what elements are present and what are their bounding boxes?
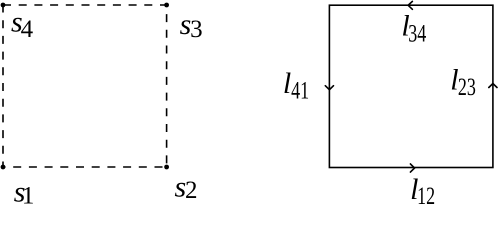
svg-text:4: 4	[21, 16, 34, 43]
svg-text:2: 2	[185, 177, 198, 204]
svg-text:3: 3	[190, 16, 203, 43]
svg-text:34: 34	[408, 20, 426, 47]
svg-text:12: 12	[417, 183, 435, 205]
svg-text:1: 1	[22, 182, 35, 205]
svg-text:41: 41	[291, 77, 309, 104]
svg-text:23: 23	[458, 74, 476, 101]
svg-text:l: l	[283, 67, 291, 100]
